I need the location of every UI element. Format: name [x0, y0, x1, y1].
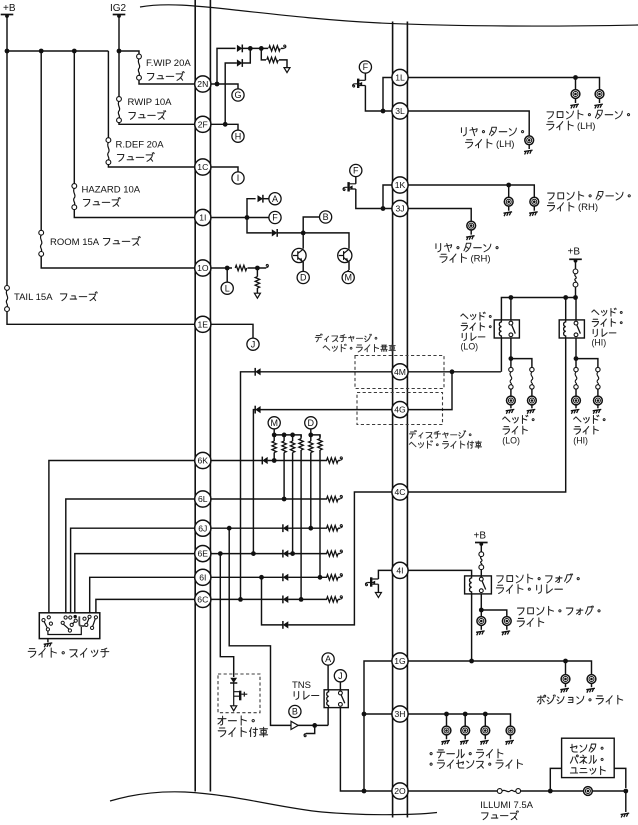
label front turn RH — [548, 193, 554, 200]
node M (matrix input) — [268, 417, 280, 429]
svg-text:RWIP 10A: RWIP 10A — [128, 97, 173, 108]
wire 3J to rear turn RH — [407, 209, 471, 222]
wire fuse to panel unit — [521, 790, 626, 792]
svg-text:1E: 1E — [198, 319, 209, 329]
wire 3L to rear turn LH — [407, 111, 529, 136]
wire stub tail lamp 1 — [446, 714, 448, 726]
resistor R-1O — [235, 265, 247, 270]
lamp headlight LO inner — [510, 389, 512, 396]
wire +B bus to R.DEF fuse — [107, 51, 109, 138]
ground tail lamp 3 — [484, 735, 486, 739]
wire 4G link vertical — [407, 372, 452, 410]
wire 1O output — [210, 267, 232, 269]
connector 3H — [392, 706, 408, 722]
svg-text:(LO): (LO) — [461, 342, 479, 352]
transistor Q2 (turn driver) — [338, 248, 352, 262]
fuse RWIP 10A — [117, 97, 122, 102]
wire stub lamp RH1 — [508, 185, 510, 197]
wire 1G left drop — [364, 661, 393, 791]
junction 6C-4M — [238, 597, 243, 602]
lamp illumination (panel) — [584, 787, 593, 796]
wire resistor to hook — [281, 47, 284, 49]
connector 3L — [392, 103, 408, 119]
wire 1G to position lights — [407, 661, 591, 675]
node D (matrix input) — [305, 417, 317, 429]
wire fog relay coil to 1G — [471, 594, 473, 661]
wire HI coil to 4C — [407, 338, 565, 492]
wire 1L to front turn LH — [407, 78, 599, 90]
svg-text:B: B — [323, 212, 329, 222]
junction LO lamps — [509, 356, 514, 361]
lamp tail/licence 4 — [506, 726, 515, 735]
wire row 6E — [210, 553, 327, 555]
lamp headlight HI inner — [575, 389, 577, 396]
wire row 6J — [210, 527, 327, 529]
junction 4M/4G link — [450, 369, 455, 374]
node F (turn RH drive) — [350, 164, 362, 176]
fuse HAZARD 10A — [72, 184, 77, 189]
ground front turn LH outer — [599, 98, 601, 103]
svg-text:3L: 3L — [395, 106, 405, 116]
wire IG2 vertical feed — [118, 15, 120, 97]
svg-text:A: A — [272, 194, 278, 204]
connector squiggle LO outer — [530, 367, 534, 371]
wire 4I to fog relay coil — [407, 570, 471, 576]
wire 4M left to matrix — [241, 372, 393, 600]
connector squiggle HI inner — [574, 367, 578, 371]
junction 2O/1G-drop — [362, 789, 367, 794]
ground headlight HI inner — [575, 405, 577, 408]
wire R.DEF fuse to 1C — [108, 165, 195, 167]
wire HI contact to lamps — [576, 338, 598, 367]
wire +B bus to ROOM fuse — [40, 51, 42, 230]
wire 1E to node J — [210, 324, 253, 338]
wire 3H to drop — [364, 713, 393, 715]
svg-text:F.WIP 20A: F.WIP 20A — [146, 58, 191, 69]
lamp headlight HI outer — [597, 389, 599, 396]
wire +B horizontal bus y=51 — [7, 50, 108, 52]
ground headlight HI outer — [597, 405, 599, 408]
ground (chassis) top-right cluster — [284, 68, 290, 73]
resistor R-top1 — [269, 46, 280, 51]
page tear curve bottom — [110, 792, 437, 815]
resistor RM5 — [310, 435, 312, 441]
resistor RM2 — [283, 435, 285, 441]
lamp rear turn RH — [467, 221, 476, 230]
junction 1I node — [245, 215, 250, 220]
svg-text:HAZARD 10A: HAZARD 10A — [82, 185, 141, 196]
diode D3 (to A) — [262, 195, 264, 203]
connector 1L — [392, 69, 408, 85]
lamp front turn RH outer — [530, 197, 539, 206]
variant box (dashed) discharge — [357, 393, 443, 425]
svg-text:+B: +B — [568, 247, 581, 258]
wire 6J drop to TNS — [229, 528, 291, 725]
label fog relay — [497, 576, 503, 583]
svg-text:F: F — [353, 166, 359, 176]
lamp tail/licence 1 — [442, 726, 451, 735]
resistor RL end + hook — [327, 496, 338, 501]
junction position lights — [563, 659, 568, 664]
wire TAIL fuse to 1E — [7, 312, 195, 325]
wire 3H to tail lights — [407, 714, 510, 726]
svg-text:TAIL 15A: TAIL 15A — [14, 292, 53, 303]
wire RWIP fuse to 2F — [119, 123, 195, 125]
junction 6E-4G — [251, 551, 256, 556]
node D — [297, 271, 309, 283]
resistor RE end + hook — [327, 551, 338, 556]
connector 1K — [392, 177, 408, 193]
node H — [232, 130, 244, 142]
resistor RI end + hook — [327, 575, 338, 580]
lamp position outer — [587, 675, 596, 684]
wire switch to ground — [47, 639, 49, 643]
wire R-top2 to ground — [279, 60, 287, 68]
svg-text:1I: 1I — [199, 213, 206, 223]
wire 1I node down to diode D4 — [247, 218, 272, 233]
wire Q2 emitter to node M — [347, 262, 350, 272]
wire 4G left to matrix — [253, 410, 392, 554]
node B (TNS drive) — [289, 705, 301, 717]
svg-text:R.DEF 20A: R.DEF 20A — [116, 140, 165, 151]
svg-text:ILLUMI 7.5A: ILLUMI 7.5A — [480, 800, 533, 811]
ground auto-light — [231, 706, 237, 711]
wire diode D2 to 2F — [225, 63, 237, 124]
wire R-1O to junction — [248, 267, 267, 269]
wire M to resistor tops — [274, 429, 301, 437]
svg-text:D: D — [308, 418, 315, 428]
wire 1K link — [383, 185, 393, 209]
lamp position inner — [561, 675, 570, 684]
resistor R-top2 — [267, 57, 278, 62]
junction 1K/3J — [381, 206, 386, 211]
fuse ROOM 15A — [39, 230, 44, 235]
junction D-R5 — [308, 433, 313, 438]
connector squiggle LO inner — [509, 367, 513, 371]
wire Q1 emitter to node D — [302, 262, 304, 272]
junction IG2/F.WIP — [117, 49, 122, 54]
label discharge-less — [315, 334, 322, 342]
svg-text:J: J — [251, 339, 256, 349]
node A — [269, 193, 281, 205]
wire 1K to front turn RH — [407, 185, 534, 197]
node J (TNS contact feed) — [334, 670, 346, 682]
ground fog MOSFET — [375, 593, 381, 598]
wire J to TNS contact — [339, 682, 341, 690]
svg-text:(HI): (HI) — [592, 338, 607, 348]
junction 6I-4C drop — [259, 575, 264, 580]
lamp tail/licence 2 — [461, 726, 470, 735]
connector 2N — [195, 76, 211, 92]
connector 1E — [195, 316, 211, 332]
wire 6E drop to auto-light — [220, 554, 233, 677]
junction rail/LO contact — [509, 295, 514, 300]
wire 4M right to LO relay coil — [407, 371, 501, 373]
transistor Q5 (turn RH MOSFET) — [355, 176, 357, 183]
connector 4M — [392, 364, 408, 380]
wire rail to LO contact — [510, 298, 512, 320]
svg-text:3J: 3J — [395, 204, 404, 214]
junction M-R3 — [290, 433, 295, 438]
ground tail lamp 2 — [464, 735, 466, 739]
lamp front turn RH inner — [504, 197, 513, 206]
page tear curve top — [140, 5, 638, 26]
wire D4 to transistor node — [277, 233, 349, 249]
wire node down to transistor Q1 — [302, 233, 304, 249]
node M — [342, 271, 354, 283]
diode D4 — [276, 229, 278, 237]
junction front turn RH — [506, 183, 511, 188]
buffer symbol (B drive) — [291, 721, 298, 729]
wire +B vertical feed — [6, 15, 8, 286]
svg-text:L: L — [225, 283, 230, 293]
ground rear turn RH — [470, 230, 472, 235]
ground illumination — [621, 813, 630, 817]
node J — [247, 338, 259, 350]
lamp headlight LO outer — [531, 389, 533, 396]
junction +B/ROOM — [39, 49, 44, 54]
junction 1O resistor node — [255, 266, 260, 271]
wire headlight feed rail — [501, 298, 576, 320]
junction transistor node — [301, 231, 306, 236]
connector 6E — [195, 546, 211, 562]
svg-text:2F: 2F — [198, 119, 208, 129]
diode D13 (auto-light) — [230, 682, 237, 684]
svg-text:1C: 1C — [197, 162, 208, 172]
node B — [320, 211, 332, 223]
node F (turn LH drive) — [359, 61, 371, 73]
continuation hook 1O — [266, 264, 268, 267]
resistor RM3 — [292, 435, 294, 441]
svg-text:2N: 2N — [197, 79, 208, 89]
svg-text:6I: 6I — [199, 572, 206, 582]
svg-text:1L: 1L — [395, 73, 405, 83]
resistor RK end + hook — [327, 458, 338, 463]
ground front fog outer — [506, 625, 508, 629]
diode D9 (6E row) — [282, 550, 284, 558]
fuse ILLUMI 7.5A — [497, 789, 502, 794]
wire 6K to light switch — [49, 461, 195, 614]
fuse R.DEF 20A — [106, 138, 111, 143]
ground headlight LO outer — [531, 405, 533, 408]
junction HI lamps — [574, 356, 579, 361]
wire TNS contact to 2O — [340, 708, 392, 791]
junction +B/HAZARD — [72, 49, 77, 54]
wire buffer to TNS coil — [298, 708, 328, 726]
wire 1L link — [383, 78, 393, 112]
connector 6L — [195, 491, 211, 507]
transistor Q1 (hazard driver) — [292, 248, 306, 262]
wire 2N to node G — [210, 84, 238, 89]
continuation hook TNS — [306, 725, 315, 733]
svg-text:ROOM 15A: ROOM 15A — [50, 237, 100, 248]
svg-text:2O: 2O — [394, 786, 406, 796]
wire 6I to light switch — [90, 577, 196, 613]
ground position inner — [565, 683, 567, 687]
lamp front fog outer — [502, 617, 511, 626]
junction tail lamp 1 — [444, 712, 449, 717]
diode D6 (4G) — [254, 406, 256, 414]
junction front turn LH — [573, 75, 578, 80]
relay headlight HI — [559, 320, 584, 338]
svg-text:4C: 4C — [395, 487, 406, 497]
label rear turn LH — [461, 128, 466, 136]
wire 6L to light switch — [66, 499, 195, 613]
svg-text:6J: 6J — [198, 523, 207, 533]
diode D7 (6K row) — [261, 457, 263, 465]
junction 6K-RM1 — [272, 458, 277, 463]
junction node P1 — [248, 46, 253, 51]
wire row 6K — [210, 460, 327, 462]
connector 3J — [392, 200, 408, 216]
label front fog light — [518, 608, 524, 615]
connector 6K — [195, 452, 211, 468]
svg-text:1O: 1O — [197, 263, 209, 273]
ground tail lamp 4 — [510, 735, 512, 739]
wire D3 to node A — [263, 198, 269, 200]
wire D to resistor tops — [311, 429, 320, 437]
svg-text:4I: 4I — [396, 566, 403, 576]
connector 6C — [195, 591, 211, 607]
svg-text:(LH): (LH) — [577, 121, 595, 132]
svg-text:(LH): (LH) — [496, 139, 514, 150]
svg-text:IG2: IG2 — [110, 3, 127, 14]
junction TNS drive — [312, 723, 317, 728]
resistor R-1O-gnd (vertical) — [256, 268, 258, 277]
svg-text:1K: 1K — [395, 180, 406, 190]
svg-text:H: H — [235, 131, 242, 141]
variant box (dashed) discharge-less — [355, 356, 444, 389]
ground headlight LO inner — [510, 405, 512, 408]
connector 1I — [195, 209, 211, 225]
diode D5 (4M) — [254, 368, 256, 376]
wire HAZARD fuse to 1I — [74, 210, 195, 218]
wire Q5 to 3J row — [356, 189, 393, 209]
connector 6I — [195, 569, 211, 585]
diode D11 (6C row) — [282, 596, 284, 604]
wire panel unit to junction right — [614, 768, 626, 788]
junction 6J TNS drop — [227, 526, 232, 531]
fuse TAIL 15A — [5, 286, 10, 291]
wire 4I to MOSFET — [378, 570, 392, 579]
connector squiggle HI outer — [596, 367, 600, 371]
fuse FOG — [480, 543, 482, 552]
connector column C-1 (left bus) — [195, 0, 210, 792]
junction 1G/fog coil — [469, 659, 474, 664]
svg-text:6C: 6C — [197, 595, 208, 605]
node I — [232, 172, 244, 184]
ground front fog inner — [480, 625, 482, 629]
svg-text:I: I — [237, 173, 240, 183]
junction rail/fuse — [573, 295, 578, 300]
junction M-R1 — [272, 433, 277, 438]
wire up to diode D3 — [247, 199, 256, 218]
wire stub tail lamp 3 — [484, 714, 486, 726]
junction 3H tap — [362, 712, 367, 717]
wire IG2 to F.WIP fuse — [119, 51, 139, 54]
lamp tail/licence 3 — [481, 726, 490, 735]
junction 1L/3L — [381, 109, 386, 114]
wire rail to HI coil — [565, 298, 567, 320]
svg-text:+B: +B — [474, 531, 487, 542]
node F (flasher) — [269, 211, 281, 223]
wire Q4 to 3L row — [365, 86, 392, 112]
ground front turn LH inner — [575, 98, 577, 103]
label tail lights — [430, 753, 432, 755]
svg-text:F: F — [272, 213, 278, 223]
svg-text:4G: 4G — [394, 405, 406, 415]
junction tail lamp 2 — [463, 712, 468, 717]
junction panel unit left — [548, 789, 553, 794]
wire A to TNS coil — [327, 665, 329, 690]
ground position outer — [591, 683, 593, 687]
wire stub lamp LH1 — [575, 78, 577, 90]
ground front turn RH outer — [533, 206, 535, 211]
wire node P1 down-left to diode D2 — [243, 48, 251, 63]
svg-text:G: G — [234, 90, 241, 100]
wire 1I output — [210, 217, 269, 219]
fuse HEAD — [575, 260, 577, 269]
svg-text:B: B — [292, 707, 298, 717]
ground (chassis) 1O — [254, 293, 260, 298]
svg-text:M: M — [270, 418, 278, 428]
connector 1C — [195, 159, 211, 175]
lamp rear turn LH — [525, 136, 534, 145]
node G — [232, 89, 244, 101]
wire stub position inner — [565, 661, 567, 675]
wire to panel unit box — [550, 768, 561, 791]
svg-text:(RH): (RH) — [471, 254, 491, 265]
diode D10 (6I row) — [282, 573, 284, 581]
connector 2O — [392, 783, 408, 799]
svg-text:J: J — [338, 671, 343, 681]
label headlight LO — [503, 417, 510, 422]
svg-text:6L: 6L — [198, 494, 208, 504]
junction rail/HI coil — [563, 295, 568, 300]
wire row 6I — [210, 576, 327, 578]
junction fog lamps — [479, 608, 484, 613]
diode D8 (6J row) — [282, 524, 284, 532]
connector 1G — [392, 653, 408, 669]
wire diode D1 to node — [242, 47, 268, 49]
wire ROOM fuse to 1O — [41, 256, 195, 268]
wire Q6 to ground — [377, 584, 379, 592]
wire 2O to illumination fuse — [407, 790, 497, 792]
wire 1C to node I — [210, 167, 238, 172]
diode D12 (4C link) — [282, 621, 284, 629]
node L — [221, 282, 233, 294]
junction at 2N output — [215, 82, 220, 87]
svg-text:M: M — [344, 273, 352, 283]
wire row 6C — [210, 598, 327, 600]
light switch SW1 — [39, 613, 100, 639]
label position lights — [537, 695, 545, 704]
svg-text:1G: 1G — [394, 656, 406, 666]
junction 6I-RM6 — [318, 575, 323, 580]
svg-text:A: A — [325, 654, 331, 664]
wire F.WIP fuse to 2N — [139, 80, 195, 84]
ground tail lamp 1 — [446, 735, 448, 739]
transistor Q6 (fog drive MOSFET) — [370, 577, 372, 586]
junction +B feed — [5, 49, 10, 54]
ground rear turn LH — [528, 145, 530, 149]
fuse F.WIP 20A — [137, 54, 142, 59]
wire 6I drop to 4C link — [262, 492, 393, 625]
label headlight relay LO — [461, 314, 468, 319]
svg-text:D: D — [300, 273, 307, 283]
label headlight relay HI — [592, 310, 599, 315]
junction tail lamp 3 — [483, 712, 488, 717]
